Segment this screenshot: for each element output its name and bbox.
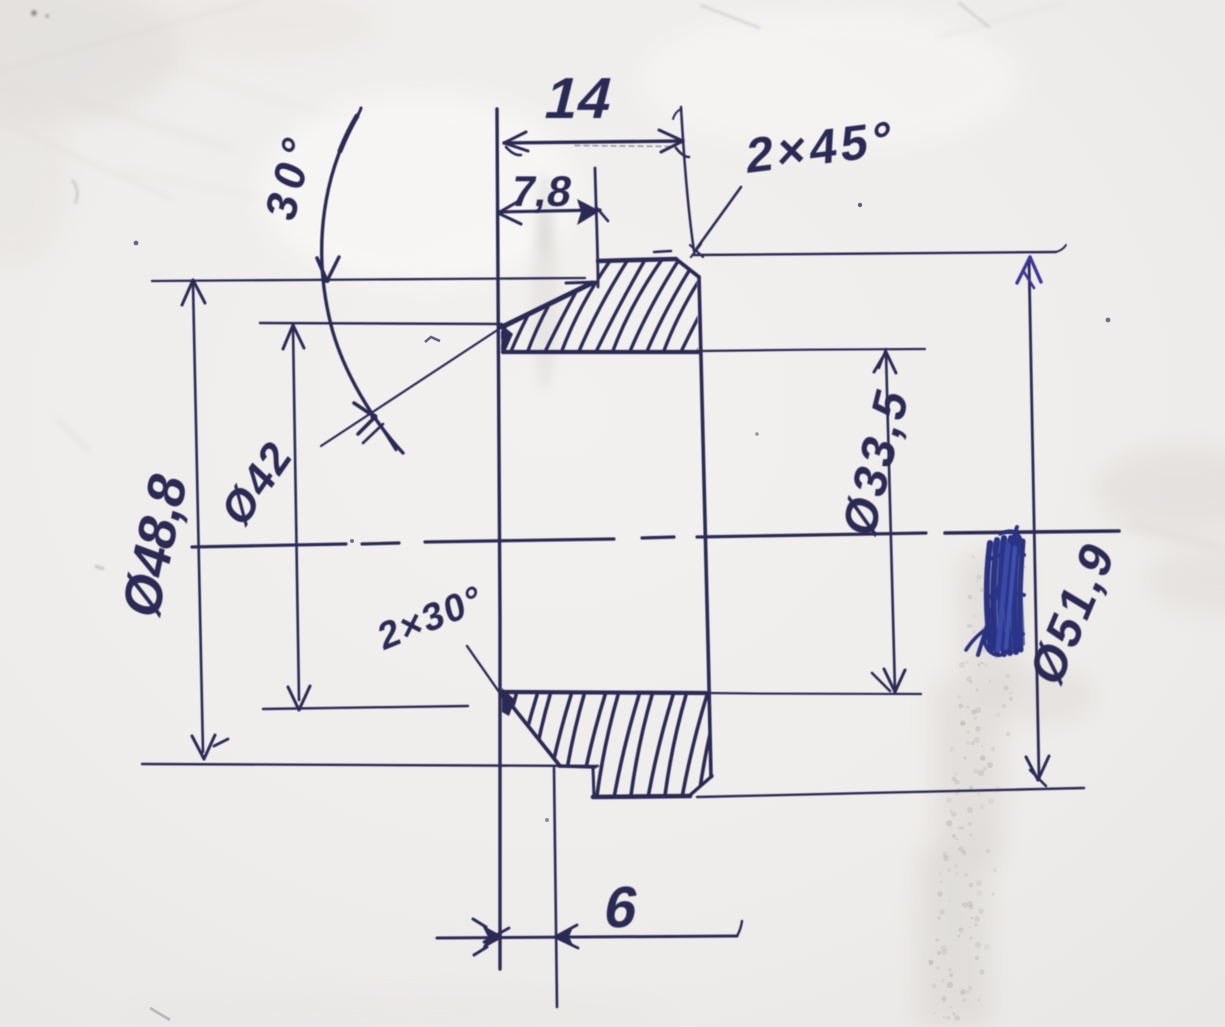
scribbled out dimension (bright blue ballpoint)	[966, 527, 1025, 655]
bottom step horizontal edge	[559, 766, 595, 767]
2x30 leader line	[467, 646, 504, 699]
dimension D51.9	[694, 245, 1084, 797]
hatching lower section	[494, 695, 754, 803]
flange top edge	[598, 259, 676, 261]
dimension 7,8	[498, 199, 608, 225]
dimension D42	[260, 323, 502, 710]
30 degree angular dimension arc	[317, 108, 403, 453]
small top surface left of flange	[566, 282, 598, 283]
svg-text:7,8: 7,8	[507, 168, 575, 216]
2x45 leader line	[690, 187, 741, 257]
bottom step vertical edge	[593, 768, 594, 797]
dimension 6	[437, 768, 742, 1007]
bore top line	[503, 350, 700, 354]
left face line / extension line	[497, 109, 500, 969]
ink drawing	[142, 107, 1119, 1007]
hatching upper section	[492, 258, 748, 356]
dimension D33.5	[872, 349, 905, 692]
bore bottom line	[503, 692, 706, 693]
2x45 chamfer edge	[676, 259, 699, 277]
dimension 14	[504, 130, 689, 157]
right face of part	[699, 277, 711, 777]
centerline	[192, 531, 1119, 547]
dimension D48.8	[142, 278, 598, 766]
chamfer ink blob	[501, 325, 513, 352]
14 right extension line	[681, 107, 694, 251]
flange bottom edge	[593, 796, 690, 797]
step face line x=597 (7.8 extension)	[595, 168, 598, 287]
small dash above top edge	[654, 251, 671, 252]
chamfer extension construction line	[321, 327, 502, 446]
bottom right chamfer	[689, 776, 712, 796]
bottom-left 30deg chamfer	[505, 697, 560, 766]
pencil specks and stray marks	[134, 203, 1111, 1020]
top-left 30deg chamfer edge (thick)	[502, 283, 592, 327]
